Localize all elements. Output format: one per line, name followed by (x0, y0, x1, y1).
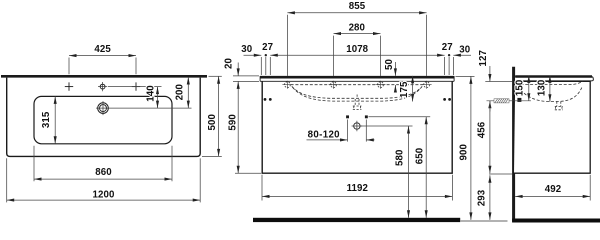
cabinet front outline (262, 81, 452, 173)
svg-text:425: 425 (94, 44, 111, 55)
ext line siphon to 580 (361, 125, 413, 127)
dim 500 (202, 76, 222, 156)
dim 175 (412, 76, 414, 102)
washbasin slab front (260, 76, 454, 81)
svg-text:80-120: 80-120 (308, 130, 340, 141)
dim 280 (334, 34, 381, 82)
svg-text:150: 150 (515, 80, 526, 96)
hidden bowl side top dashed (521, 81, 583, 85)
dim 50 (394, 62, 396, 92)
mounting square left (346, 115, 349, 118)
dim 127 (485, 66, 512, 112)
svg-text:293: 293 (476, 189, 487, 206)
dim 492 (515, 175, 590, 201)
svg-text:855: 855 (349, 1, 366, 12)
floor bar middle (253, 218, 460, 222)
wall line (back edge, thick) (1, 75, 207, 78)
ext line squares to 650 (369, 116, 431, 118)
hanger bracket square (517, 98, 521, 102)
faucet hole center circle (98, 82, 107, 91)
dim 425 (69, 56, 136, 75)
hanger screw dots left (264, 98, 267, 101)
wall anchor screw line (487, 100, 532, 102)
wall (512, 67, 515, 222)
svg-text:20: 20 (223, 58, 234, 69)
dim 20 and 590 (233, 63, 261, 174)
svg-text:492: 492 (545, 184, 561, 195)
dim 80-120 (307, 120, 375, 142)
dim 315 (54, 96, 56, 143)
hidden bowl side under dashed (518, 86, 582, 101)
svg-text:1200: 1200 (93, 189, 115, 200)
drain circles (96, 101, 110, 115)
svg-text:175: 175 (399, 81, 410, 98)
floor bar right (512, 219, 600, 223)
dim 130 (549, 75, 551, 101)
drain hidden dashed (353, 95, 362, 110)
svg-text:127: 127 (478, 50, 489, 66)
svg-text:200: 200 (175, 84, 186, 100)
dim 293 (489, 174, 512, 220)
dim 900 (456, 76, 475, 220)
svg-text:1192: 1192 (347, 183, 368, 194)
cabinet side outline (514, 81, 590, 173)
hidden bowl inner curve dashed (292, 86, 422, 98)
hidden bowl under curve dashed (293, 87, 422, 101)
dim 1200 (7, 158, 201, 202)
svg-text:280: 280 (349, 23, 365, 34)
washbasin slab side (515, 75, 593, 81)
wall anchor hatched dowel (494, 99, 509, 103)
svg-text:580: 580 (395, 150, 406, 166)
floor thin gray extension (460, 220, 507, 222)
faucet hole dashed circle far-right (422, 81, 432, 89)
svg-text:650: 650 (414, 148, 425, 164)
svg-text:590: 590 (227, 114, 238, 130)
svg-text:456: 456 (477, 121, 488, 138)
svg-text:140: 140 (145, 85, 156, 101)
svg-text:860: 860 (95, 167, 111, 178)
siphon outlet circle-cross (352, 121, 363, 132)
dim 580 (408, 126, 410, 218)
dim chain 30 27 1078 27 30 (244, 55, 472, 97)
dim 200 (110, 77, 192, 108)
dim 456 (489, 101, 491, 174)
dim 860 (34, 146, 172, 182)
faucet hole cross left (65, 82, 73, 90)
svg-text:30: 30 (459, 45, 470, 56)
drain side hidden dashed (555, 102, 563, 110)
faucet hole dashed circle far-left (282, 81, 292, 89)
dim 140 (108, 87, 162, 109)
dim 1192 (262, 175, 452, 201)
washbasin outer outline (7, 78, 201, 157)
svg-text:27: 27 (442, 42, 453, 53)
dim 150 (528, 75, 530, 100)
faucet hole cross right (132, 82, 140, 90)
inner bowl outline (34, 96, 172, 143)
mounting square right (365, 115, 368, 118)
svg-text:500: 500 (207, 114, 218, 130)
dim 650 (425, 117, 427, 218)
svg-text:315: 315 (41, 111, 52, 128)
hanger screw dots right (443, 98, 446, 101)
hidden bowl top edge dashed (291, 84, 424, 86)
faucet hole dashed circle mid-left (329, 81, 339, 89)
svg-text:900: 900 (459, 144, 470, 160)
dim 855 (287, 13, 426, 81)
svg-text:30: 30 (241, 44, 252, 55)
svg-text:130: 130 (536, 80, 547, 96)
svg-text:27: 27 (262, 42, 273, 53)
svg-text:1078: 1078 (346, 44, 368, 55)
faucet hole dashed circle mid-right (376, 81, 386, 89)
svg-text:50: 50 (384, 59, 395, 70)
